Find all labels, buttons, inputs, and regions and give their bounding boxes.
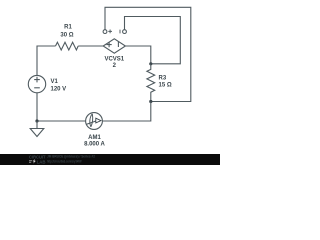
- voltage source V1: [28, 75, 45, 92]
- svg-text:http://circuitlab.com/c/y34fW: http://circuitlab.com/c/y34fW: [47, 159, 82, 163]
- terminal + of VCVS1 control: [103, 30, 112, 34]
- svg-text:15 Ω: 15 Ω: [159, 83, 172, 89]
- svg-text:30 Ω: 30 Ω: [60, 33, 73, 39]
- svg-text:V1: V1: [51, 79, 59, 85]
- wire: R3 bottom down to ammeter: [103, 102, 151, 122]
- ground: [30, 121, 44, 137]
- svg-text:8.000 A: 8.000 A: [84, 141, 105, 147]
- resistor R1: [56, 42, 79, 50]
- svg-text:VCVS1: VCVS1: [104, 57, 124, 63]
- wire: V1 bottom to ground node: [36, 93, 38, 121]
- svg-text:AM1: AM1: [88, 135, 101, 141]
- resistor R3: [147, 64, 155, 102]
- wire: - terminal up and right to R3 top: [125, 17, 181, 64]
- svg-text:LAB: LAB: [37, 159, 46, 165]
- op-amp VCVS1 diamond: [103, 39, 125, 53]
- wire: ammeter left to V1 bottom node: [37, 120, 86, 122]
- node: R3 top junction: [149, 62, 152, 65]
- ammeter AM1: [86, 113, 103, 130]
- svg-text:2: 2: [113, 63, 117, 69]
- node: ground junction: [35, 119, 38, 122]
- terminal - of VCVS1 control: [120, 30, 126, 34]
- svg-text:R3: R3: [159, 75, 167, 81]
- svg-text:120 V: 120 V: [51, 87, 67, 93]
- wire: R1 to VCVS1 left: [78, 45, 103, 47]
- node: R3 bottom junction: [149, 100, 152, 103]
- svg-text:JM BRUCE (jmbruce) / Series #2: JM BRUCE (jmbruce) / Series #2: [47, 155, 95, 159]
- wire: VCVS1 right to R3 top node: [125, 46, 150, 64]
- wire: V1 top to R1: [37, 46, 56, 75]
- wire: + terminal up and around right side to R3 bottom: [105, 7, 191, 101]
- footer logo bar: [0, 154, 220, 165]
- svg-text:R1: R1: [64, 25, 72, 31]
- arrowhead of AM1: [96, 118, 101, 123]
